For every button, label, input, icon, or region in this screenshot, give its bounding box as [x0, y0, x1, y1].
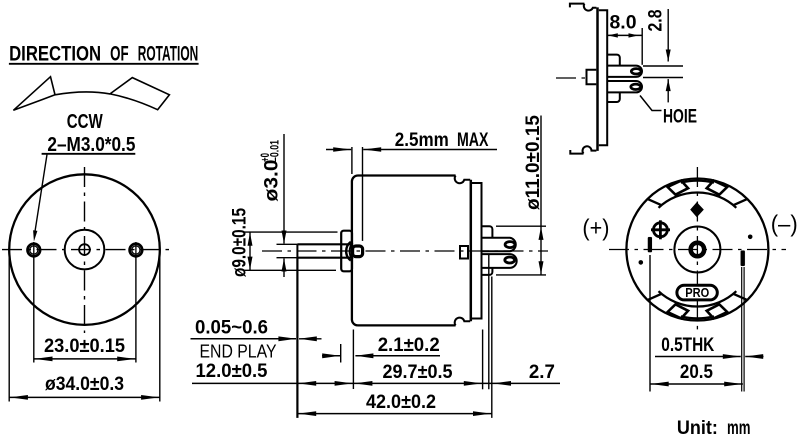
svg-text:END PLAY: END PLAY — [200, 342, 277, 362]
svg-text:HOIE: HOIE — [663, 106, 697, 128]
svg-text:ø3.0: ø3.0 — [261, 159, 283, 201]
svg-text:MAX: MAX — [457, 129, 489, 151]
svg-text:DIRECTION: DIRECTION — [9, 43, 101, 66]
svg-text:ø34.0±0.3: ø34.0±0.3 — [45, 373, 124, 395]
svg-text:12.0±0.5: 12.0±0.5 — [196, 361, 268, 382]
svg-text:(+): (+) — [582, 215, 609, 241]
svg-text:ROTATION: ROTATION — [138, 43, 199, 66]
svg-text:Unit:: Unit: — [677, 417, 718, 437]
svg-text:2.7: 2.7 — [529, 361, 555, 383]
svg-text:23.0±0.15: 23.0±0.15 — [44, 335, 125, 357]
svg-text:20.5: 20.5 — [680, 361, 713, 383]
svg-text:2.5mm: 2.5mm — [395, 129, 449, 151]
svg-text:ø11.0±0.15: ø11.0±0.15 — [522, 115, 544, 210]
svg-text:2–M3.0*0.5: 2–M3.0*0.5 — [47, 134, 135, 156]
svg-text:ø9.0±0.15: ø9.0±0.15 — [229, 208, 251, 277]
svg-text:–0.01: –0.01 — [270, 140, 282, 162]
svg-text:8.0: 8.0 — [610, 12, 637, 34]
svg-text:0.05~0.6: 0.05~0.6 — [195, 317, 268, 338]
svg-text:29.7±0.5: 29.7±0.5 — [383, 361, 453, 383]
svg-text:OF: OF — [110, 43, 129, 66]
svg-text:(–): (–) — [771, 211, 798, 237]
svg-text:mm: mm — [727, 417, 751, 437]
svg-text:0.5THK: 0.5THK — [661, 334, 714, 356]
svg-text:2.8: 2.8 — [645, 9, 667, 31]
svg-text:CCW: CCW — [67, 111, 103, 133]
svg-text:2.1±0.2: 2.1±0.2 — [378, 334, 440, 356]
svg-text:42.0±0.2: 42.0±0.2 — [366, 391, 436, 413]
svg-text:PRO: PRO — [685, 286, 709, 300]
